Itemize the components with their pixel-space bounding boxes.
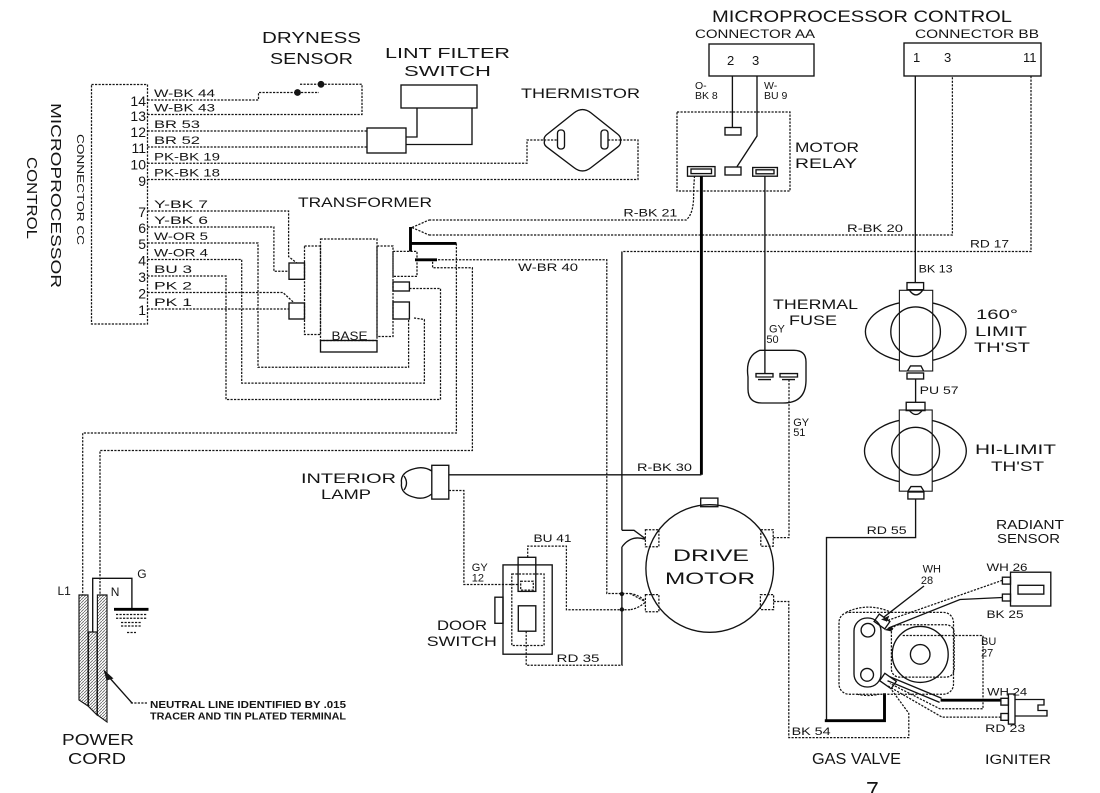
thermistor RT1 body	[544, 110, 621, 171]
svg-text:7: 7	[138, 204, 146, 220]
radiant sensor terminal lower	[1002, 594, 1010, 601]
svg-text:1: 1	[138, 302, 146, 318]
wire R-BK 20 (transformer to BB pin 3)	[429, 76, 952, 235]
transformer base plate	[321, 341, 378, 353]
wire W-OR 4 (pin 4 under transformer to pin R3 area)	[148, 260, 425, 384]
wire GY 12 (lamp to door switch)	[449, 491, 518, 585]
wire RD 23 (gas valve to igniter)	[888, 686, 1001, 717]
svg-text:BR 52: BR 52	[154, 135, 200, 147]
svg-text:12: 12	[130, 124, 146, 140]
svg-text:RD 17: RD 17	[970, 239, 1009, 251]
svg-text:BR 53: BR 53	[154, 119, 200, 131]
gas valve inner frame	[891, 625, 954, 677]
igniter terminal lower	[1001, 714, 1009, 721]
wire PK 2 (pin 2 to transformer pin L2 top)	[148, 293, 295, 304]
wire PK-BK 19 (pin 10 to thermistor)	[148, 140, 545, 163]
svg-text:LIMIT: LIMIT	[975, 324, 1027, 339]
svg-text:MICROPROCESSOR: MICROPROCESSOR	[47, 103, 64, 288]
wire W-OR 5 (pin 5 under transformer to pin R3)	[148, 243, 409, 367]
wire PK-BK 18 (pin 9 to thermistor)	[148, 140, 639, 180]
svg-text:N: N	[111, 585, 120, 599]
svg-text:W-OR 4: W-OR 4	[154, 248, 208, 260]
svg-text:R-BK 30: R-BK 30	[637, 462, 692, 474]
svg-text:50: 50	[766, 334, 778, 346]
160 limit top terminal	[907, 283, 924, 290]
svg-text:12: 12	[472, 573, 484, 585]
drive motor upper-right terminal	[761, 530, 773, 547]
wire L1 feed (to power cord L1)	[83, 243, 457, 595]
transformer pin R3	[393, 302, 409, 319]
svg-text:LINT FILTER: LINT FILTER	[385, 45, 510, 62]
160 deg limit thermostat body	[865, 290, 966, 371]
svg-text:R-BK 20: R-BK 20	[847, 223, 903, 235]
svg-text:BK 13: BK 13	[919, 264, 953, 276]
svg-text:W-OR 5: W-OR 5	[154, 231, 208, 243]
gas valve outer body	[839, 612, 954, 694]
svg-text:10: 10	[130, 156, 146, 172]
svg-text:LAMP: LAMP	[321, 486, 371, 502]
svg-text:PK 2: PK 2	[154, 281, 192, 293]
svg-text:FUSE: FUSE	[789, 312, 837, 328]
svg-text:BU 41: BU 41	[534, 533, 572, 545]
wire PK 1 (pin 1 to transformer pin L2 left)	[148, 308, 290, 310]
relay coil terminal	[725, 128, 741, 136]
transformer pin L2	[289, 303, 305, 319]
power cord prong G (right)	[97, 595, 107, 722]
svg-text:HI-LIMIT: HI-LIMIT	[975, 442, 1056, 457]
svg-text:DRIVE: DRIVE	[673, 546, 749, 565]
wire lint filter switch leg 2	[406, 108, 472, 145]
svg-text:WH 26: WH 26	[987, 562, 1028, 574]
svg-text:R-BK 21: R-BK 21	[623, 208, 677, 220]
svg-text:4: 4	[138, 253, 146, 269]
svg-text:2: 2	[727, 53, 734, 68]
gas valve lower terminal block	[880, 673, 897, 688]
svg-text:CONNECTOR CC: CONNECTOR CC	[74, 134, 86, 246]
svg-text:14: 14	[130, 93, 146, 109]
interior lamp socket	[432, 465, 449, 499]
svg-text:CONNECTOR BB: CONNECTOR BB	[915, 27, 1039, 41]
svg-text:27: 27	[981, 648, 993, 660]
lint filter switch S1 body	[401, 85, 477, 108]
svg-text:Y-BK 6: Y-BK 6	[154, 215, 208, 227]
svg-text:BK 54: BK 54	[792, 726, 831, 738]
wire WH 24 (gas valve to igniter)	[941, 699, 1001, 702]
svg-text:THERMAL: THERMAL	[773, 296, 858, 312]
wire relay T3 to thermal fuse	[764, 176, 766, 373]
interior lamp DS1 bulb	[401, 468, 431, 499]
transformer T1 body	[321, 239, 378, 341]
gas valve coil upper port	[861, 623, 875, 637]
node dryness sensor contact A	[294, 89, 301, 96]
svg-text:MOTOR: MOTOR	[795, 139, 859, 155]
wire ground pigtail	[93, 578, 132, 632]
gas valve main body circle	[892, 626, 948, 682]
transformer pin R1	[393, 251, 417, 276]
relay terminal T2	[725, 167, 741, 175]
wire BK 25 (radiant sensor to gas valve)	[889, 598, 1003, 629]
gas valve inner circle	[910, 645, 930, 665]
svg-text:RD 35: RD 35	[557, 653, 600, 665]
wire W-BK 43 (dryness sensor return to pin 13)	[148, 84, 363, 114]
power cord prong N (middle)	[89, 632, 98, 715]
wire N feed (pin R1 branch to power cord N)	[100, 260, 472, 595]
svg-text:BU 9: BU 9	[764, 90, 788, 102]
motor relay K1 box	[677, 112, 790, 191]
transformer left flange	[305, 246, 321, 335]
wire BR 53 (pin 12 to lint filter switch)	[148, 130, 368, 132]
relay terminal T3	[753, 168, 778, 177]
svg-text:Y-BK 7: Y-BK 7	[154, 199, 208, 211]
svg-text:WH 24: WH 24	[987, 687, 1027, 699]
wire Y-BK 7 (pin 7 to transformer pin L1 top)	[148, 211, 297, 263]
svg-text:3: 3	[752, 53, 759, 68]
svg-text:TH'ST: TH'ST	[974, 340, 1030, 355]
svg-text:2: 2	[138, 286, 146, 302]
wire W-BU 9 (AA pin 3 to relay contact)	[737, 76, 757, 167]
svg-text:IGNITER: IGNITER	[985, 752, 1051, 767]
svg-text:51: 51	[793, 427, 805, 439]
transformer pin R2	[393, 282, 409, 291]
svg-text:TRANSFORMER: TRANSFORMER	[298, 194, 432, 210]
svg-text:DOOR: DOOR	[437, 617, 487, 633]
svg-text:3: 3	[138, 269, 146, 285]
svg-text:CONTROL: CONTROL	[23, 157, 40, 239]
svg-text:13: 13	[130, 108, 146, 124]
drive motor top terminal	[701, 498, 718, 507]
hi-limit thermostat body	[865, 410, 967, 491]
ground symbol	[114, 609, 149, 632]
svg-text:RADIANT: RADIANT	[996, 518, 1064, 532]
svg-text:SENSOR: SENSOR	[997, 532, 1060, 546]
radiant sensor body	[1011, 572, 1051, 606]
wire Y-BK 6 (pin 6 to transformer pin L1 left)	[148, 227, 290, 271]
wire RD 17 (BB pin 11 down-left)	[622, 76, 1031, 252]
hi-limit top terminal	[906, 402, 925, 410]
gas valve solenoid back circle	[846, 607, 891, 695]
transformer right flange	[377, 246, 393, 337]
wire heavy stub at pin R1 right	[415, 258, 437, 261]
wire thermistor internal left	[544, 139, 557, 141]
svg-text:CONNECTOR AA: CONNECTOR AA	[695, 27, 815, 41]
wire W-BR 40 (pin R1 to drive motor lower-left)	[417, 260, 645, 602]
wire WH 26 (radiant sensor to gas valve)	[886, 580, 1002, 621]
svg-text:CORD: CORD	[68, 751, 126, 768]
wire BK 54 (motor lower-right to gas valve)	[774, 602, 909, 738]
svg-text:6: 6	[138, 220, 146, 236]
svg-text:PU 57: PU 57	[920, 385, 959, 397]
svg-text:G: G	[137, 567, 146, 581]
connector BB	[904, 43, 1041, 76]
igniter body	[1008, 694, 1015, 724]
svg-text:GAS VALVE: GAS VALVE	[812, 751, 901, 768]
svg-text:BU 3: BU 3	[154, 264, 192, 276]
wire BK 13 (BB pin 1 to 160 limit thermostat)	[914, 76, 916, 282]
node dryness sensor contact B	[318, 81, 325, 88]
wire GY 51 (thermal fuse to motor upper-right)	[773, 380, 789, 538]
svg-text:POWER: POWER	[62, 732, 134, 749]
svg-text:PK 1: PK 1	[154, 297, 192, 309]
svg-text:RELAY: RELAY	[795, 155, 858, 171]
wire PU 57 (160 limit to hi-limit)	[915, 379, 917, 402]
svg-text:MICROPROCESSOR CONTROL: MICROPROCESSOR CONTROL	[712, 7, 1012, 26]
thermal fuse F1 body	[748, 350, 807, 403]
svg-text:BK 25: BK 25	[987, 609, 1024, 621]
svg-text:11: 11	[1023, 50, 1037, 65]
svg-text:3: 3	[944, 50, 951, 65]
node R-BK 21/20 convergence at pin R1	[412, 220, 429, 235]
svg-text:INTERIOR: INTERIOR	[301, 470, 396, 486]
wire O-BK 8 (AA pin 2 to relay coil)	[731, 76, 733, 128]
wire R-BK 30 (lamp to relay T1 line)	[449, 474, 702, 476]
wire RD net vertical (RD 17 / RD 35 to motor upper-left)	[622, 252, 646, 666]
drive motor M1 body	[646, 505, 774, 633]
svg-text:NEUTRAL LINE IDENTIFIED BY .01: NEUTRAL LINE IDENTIFIED BY .015	[150, 699, 346, 711]
igniter element fork	[1015, 700, 1047, 717]
svg-text:W-BK 43: W-BK 43	[154, 103, 215, 115]
svg-text:9: 9	[138, 173, 146, 189]
wire heavy elbow from convergence to pin R1 top	[410, 227, 457, 251]
wire W-BK 44 (pin 14 to dryness sensor)	[148, 93, 320, 101]
thermistor terminal 2	[601, 130, 608, 149]
connector CC (microprocessor control)	[92, 85, 148, 325]
svg-text:TH'ST: TH'ST	[991, 459, 1044, 474]
label WH 28 with leader	[881, 564, 941, 622]
svg-text:BU: BU	[981, 636, 996, 648]
lint filter switch connector block	[367, 128, 406, 153]
drive motor lower-left terminal	[645, 595, 659, 612]
svg-text:RD 23: RD 23	[985, 723, 1025, 735]
door switch lower contact	[518, 606, 536, 631]
connector AA	[709, 44, 814, 76]
svg-text:BK 8: BK 8	[695, 90, 718, 102]
svg-text:5: 5	[138, 236, 146, 252]
svg-text:11: 11	[131, 140, 146, 156]
wire RD 35 (door switch bottom to RD vertical)	[526, 631, 623, 665]
hi-limit bottom terminal	[908, 492, 924, 499]
svg-text:7: 7	[866, 777, 879, 793]
svg-text:1: 1	[913, 50, 920, 65]
svg-text:W-BR 40: W-BR 40	[518, 262, 578, 274]
wire BR 52 (pin 11 to lint filter switch)	[148, 146, 368, 148]
door switch top terminal	[518, 557, 536, 591]
svg-text:PK-BK 18: PK-BK 18	[154, 168, 220, 180]
drive motor lower-right terminal	[760, 595, 773, 610]
transformer pin L1	[289, 263, 305, 279]
gas valve coil lower port	[861, 668, 874, 681]
drive motor upper-left terminal	[645, 530, 659, 547]
160 limit bottom terminal	[907, 373, 924, 379]
node junction dots on RD vertical	[620, 592, 624, 596]
wire thermistor internal right	[608, 139, 621, 141]
note neutral line callout	[104, 670, 347, 723]
svg-text:160°: 160°	[976, 307, 1018, 322]
svg-text:L1: L1	[58, 584, 72, 598]
svg-text:DRYNESS: DRYNESS	[262, 30, 361, 47]
svg-text:TRACER AND TIN PLATED TERMINAL: TRACER AND TIN PLATED TERMINAL	[150, 711, 347, 723]
gas valve upper terminal block	[874, 614, 890, 629]
svg-text:RD 55: RD 55	[867, 525, 907, 537]
thermal fuse terminal left	[756, 374, 773, 380]
svg-text:PK-BK 19: PK-BK 19	[154, 151, 220, 163]
door switch S2 outer body	[503, 565, 552, 654]
wire R-BK 21 (transformer to relay T1)	[429, 176, 695, 220]
thermistor terminal 1	[558, 130, 565, 149]
wire BU 3 (pin 3 under transformer to pin R2)	[148, 276, 441, 400]
svg-text:SENSOR: SENSOR	[270, 51, 353, 68]
wire BU 27 (gas valve loop)	[890, 636, 983, 709]
wire BU 41 (door switch to motor lower-left)	[528, 546, 630, 610]
svg-text:W-BK 44: W-BK 44	[154, 88, 215, 100]
svg-text:THERMISTOR: THERMISTOR	[521, 85, 640, 101]
thermal fuse terminal right	[780, 374, 798, 380]
gas valve coil stadium	[854, 618, 881, 687]
svg-text:BASE: BASE	[332, 329, 368, 343]
wire RD 55 (hi-limit to gas valve)	[827, 499, 916, 721]
svg-text:MOTOR: MOTOR	[665, 569, 755, 588]
igniter terminal upper	[1001, 698, 1009, 705]
wire heavy relay T1 down (R-BK 30 vertical)	[700, 176, 703, 475]
wire BU 41 arrow into motor lower-left	[630, 594, 645, 610]
svg-text:SWITCH: SWITCH	[427, 633, 497, 649]
svg-text:WH: WH	[923, 564, 941, 576]
door switch inner body	[512, 574, 544, 646]
door switch left bump	[495, 597, 503, 623]
svg-text:28: 28	[921, 575, 933, 587]
relay terminal T1	[688, 167, 716, 177]
wire lint filter switch leg 1	[406, 108, 417, 137]
radiant sensor terminal upper	[1002, 577, 1010, 584]
svg-text:SWITCH: SWITCH	[404, 63, 491, 80]
power cord prong L1	[79, 595, 88, 706]
